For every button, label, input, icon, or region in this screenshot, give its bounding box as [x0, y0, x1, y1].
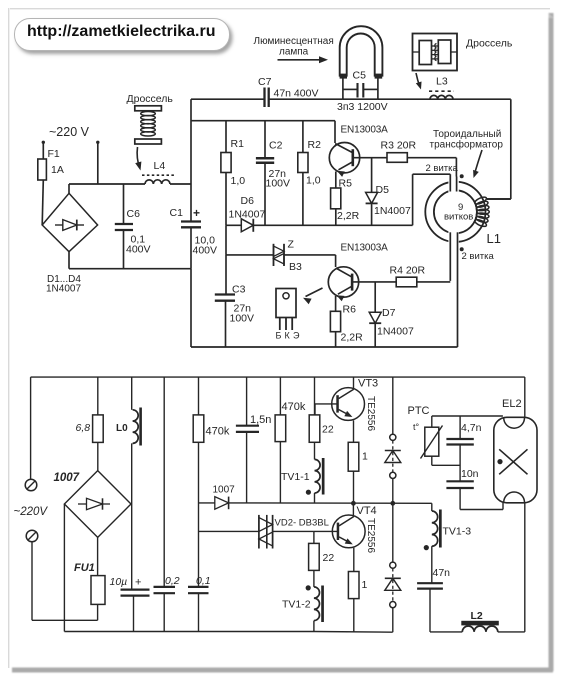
svg-text:1,0: 1,0: [231, 175, 246, 187]
svg-text:D5: D5: [376, 184, 390, 196]
svg-text:витков: витков: [444, 212, 473, 223]
svg-text:Дроссель: Дроссель: [127, 93, 174, 105]
svg-text:100V: 100V: [230, 313, 255, 325]
svg-text:400V: 400V: [126, 244, 151, 256]
svg-text:D7: D7: [382, 307, 396, 319]
svg-text:47n: 47n: [433, 567, 451, 579]
svg-text:VT3: VT3: [358, 378, 378, 390]
svg-text:R5: R5: [339, 178, 353, 190]
svg-text:R2: R2: [308, 139, 322, 151]
svg-text:C5: C5: [353, 70, 367, 82]
svg-text:6,8: 6,8: [76, 422, 91, 434]
svg-text:C7: C7: [258, 76, 272, 88]
svg-text:PTC: PTC: [408, 405, 430, 417]
svg-text:VT4: VT4: [357, 505, 377, 517]
svg-text:47n 400V: 47n 400V: [274, 88, 319, 100]
svg-text:Люминесцентная: Люминесцентная: [254, 36, 334, 47]
svg-text:B3: B3: [289, 261, 302, 273]
svg-text:R6: R6: [343, 304, 357, 316]
svg-text:0,2: 0,2: [165, 575, 180, 587]
svg-text:F1: F1: [48, 148, 60, 160]
svg-text:2,2R: 2,2R: [337, 210, 360, 222]
svg-text:R3 20R: R3 20R: [381, 140, 417, 152]
svg-text:L4: L4: [154, 160, 166, 172]
svg-text:L3: L3: [436, 76, 448, 88]
svg-text:TV1-1: TV1-1: [281, 471, 310, 483]
svg-text:~220V: ~220V: [14, 506, 49, 518]
svg-text:К: К: [285, 331, 291, 341]
svg-text:C1: C1: [170, 207, 184, 219]
svg-text:TV1-3: TV1-3: [443, 526, 472, 538]
svg-text:R4 20R: R4 20R: [390, 265, 426, 277]
svg-text:1N4007: 1N4007: [229, 209, 266, 221]
svg-text:Дроссель: Дроссель: [466, 38, 513, 50]
svg-text:L0: L0: [116, 423, 128, 434]
svg-text:L1: L1: [487, 231, 501, 246]
svg-text:400V: 400V: [193, 245, 218, 257]
svg-text:+: +: [135, 577, 141, 589]
svg-text:~220 V: ~220 V: [49, 125, 90, 139]
svg-text:C6: C6: [127, 208, 141, 220]
svg-text:22: 22: [323, 552, 335, 564]
svg-text:C2: C2: [269, 140, 283, 152]
svg-text:VD2- DB3BL: VD2- DB3BL: [275, 518, 329, 529]
svg-text:0,1: 0,1: [196, 575, 211, 587]
svg-text:1N4007: 1N4007: [377, 326, 414, 338]
svg-text:470k: 470k: [206, 426, 230, 438]
svg-text:Z: Z: [288, 239, 295, 251]
svg-text:1: 1: [362, 579, 368, 591]
svg-text:TE2556: TE2556: [365, 518, 376, 553]
svg-text:1N4007: 1N4007: [374, 205, 411, 217]
svg-text:TV1-2: TV1-2: [282, 599, 311, 611]
svg-text:1,5n: 1,5n: [250, 414, 271, 426]
svg-text:2 витка: 2 витка: [426, 163, 459, 174]
svg-text:+: +: [193, 206, 200, 220]
svg-text:3п3 1200V: 3п3 1200V: [337, 101, 388, 113]
svg-text:4,7n: 4,7n: [461, 422, 482, 434]
svg-text:2 витка: 2 витка: [462, 251, 495, 262]
svg-text:22: 22: [322, 424, 334, 436]
svg-text:D6: D6: [241, 195, 255, 207]
svg-text:лампа: лампа: [279, 47, 309, 58]
svg-text:10µ: 10µ: [110, 576, 128, 588]
svg-text:1,0: 1,0: [306, 175, 321, 187]
svg-text:C3: C3: [232, 284, 246, 296]
svg-text:t°: t°: [413, 422, 420, 432]
svg-text:FU1: FU1: [74, 562, 95, 574]
svg-text:470k: 470k: [282, 401, 306, 413]
svg-text:EN13003A: EN13003A: [341, 243, 389, 254]
svg-text:1A: 1A: [51, 164, 64, 176]
svg-text:Б: Б: [276, 331, 282, 341]
svg-text:Э: Э: [293, 331, 300, 341]
svg-text:EL2: EL2: [502, 398, 522, 410]
svg-text:2,2R: 2,2R: [341, 332, 364, 344]
svg-text:1: 1: [362, 451, 368, 463]
svg-text:1007: 1007: [54, 472, 80, 484]
svg-text:TE2556: TE2556: [365, 396, 376, 431]
svg-text:трансформатор: трансформатор: [430, 139, 504, 151]
svg-text:10n: 10n: [461, 468, 479, 480]
svg-text:EN13003A: EN13003A: [341, 125, 389, 136]
svg-text:1007: 1007: [213, 485, 236, 496]
svg-text:R1: R1: [231, 138, 245, 150]
svg-text:L2: L2: [471, 610, 483, 622]
svg-text:Тороидальный: Тороидальный: [433, 129, 501, 140]
svg-text:100V: 100V: [266, 178, 291, 190]
svg-text:1N4007: 1N4007: [46, 284, 81, 295]
